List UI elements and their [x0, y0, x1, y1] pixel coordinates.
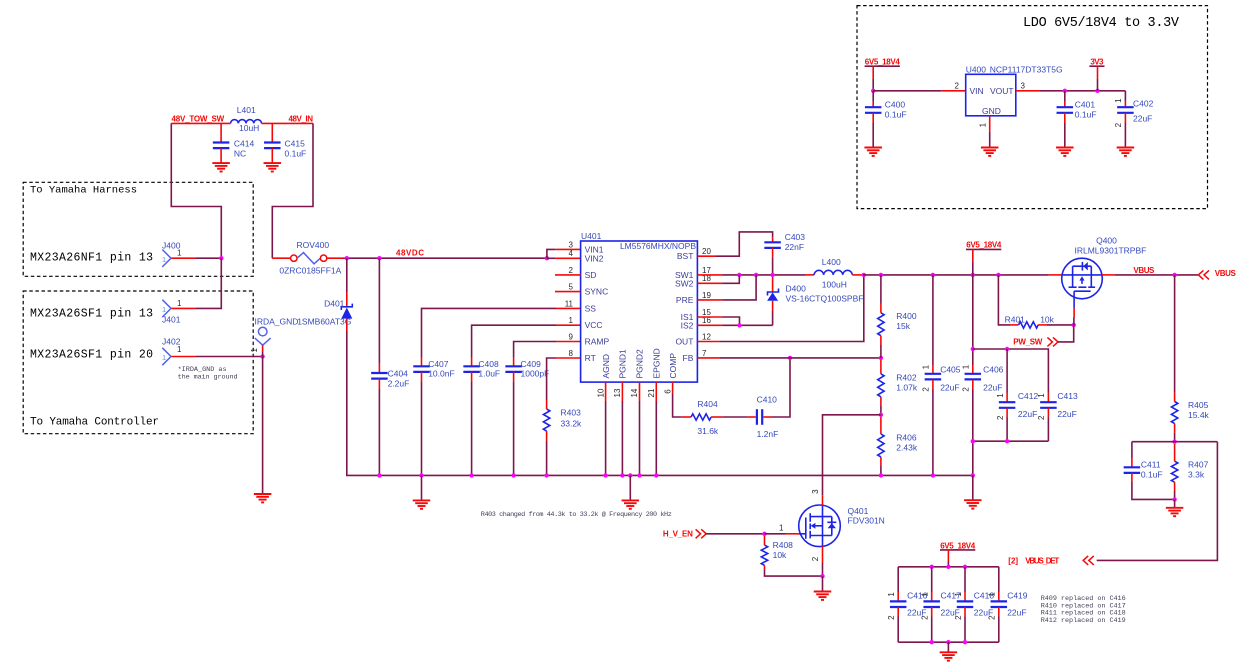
svg-text:RAMP: RAMP [585, 337, 610, 347]
varistor ROV400 [272, 257, 290, 259]
junction bus end [971, 473, 975, 477]
wire D401 to ground bus [347, 331, 973, 475]
svg-text:PGND2: PGND2 [635, 349, 645, 379]
svg-text:33.2k: 33.2k [561, 418, 583, 428]
net 48V_TOW_SW wire [171, 122, 230, 124]
svg-text:C408: C408 [478, 359, 499, 369]
svg-text:7: 7 [702, 349, 707, 358]
capacitor C417 [931, 567, 933, 592]
svg-text:1000pF: 1000pF [521, 369, 550, 379]
svg-text:H_V_EN: H_V_EN [663, 530, 693, 539]
wire C412/C413 rect top [973, 349, 1049, 393]
wire to U400 VIN [873, 90, 941, 92]
connector J400 [162, 250, 171, 267]
svg-text:2: 2 [962, 387, 971, 392]
svg-text:VOUT: VOUT [990, 86, 1014, 96]
capacitor C411 [1131, 442, 1133, 458]
capacitor C402 [1124, 91, 1126, 101]
svg-text:1: 1 [569, 316, 574, 325]
svg-text:0.1uF: 0.1uF [1075, 109, 1097, 119]
svg-text:15k: 15k [896, 321, 910, 331]
wire cap bank bottom [898, 641, 999, 643]
svg-text:C403: C403 [785, 232, 806, 242]
svg-text:3: 3 [569, 240, 574, 249]
wire ROV400 to 48VDC rail [327, 257, 343, 259]
regulator U400 NCP1117 [966, 74, 1016, 116]
wire H_V_EN to gate [705, 533, 764, 535]
svg-text:C402: C402 [1133, 98, 1154, 108]
svg-text:48V_IN: 48V_IN [289, 114, 314, 123]
wire divider mid to Q401 drain [823, 415, 881, 495]
svg-text:48V_TOW_SW: 48V_TOW_SW [172, 114, 225, 123]
svg-text:IRDA_GND: IRDA_GND [255, 316, 299, 326]
pin stub SW2 [697, 282, 722, 284]
svg-text:FDV301N: FDV301N [848, 516, 885, 526]
svg-text:C404: C404 [388, 368, 409, 378]
svg-text:2: 2 [954, 615, 963, 620]
wire C412/C413 rect bottom [973, 441, 1049, 475]
capacitor C409 [513, 357, 515, 366]
svg-text:SYNC: SYNC [585, 287, 609, 297]
junction Q401 source [820, 574, 824, 578]
svg-text:1: 1 [779, 523, 784, 532]
wire VBUS down to R405 [1174, 275, 1176, 392]
svg-text:L401: L401 [237, 105, 256, 115]
net 48V_IN wire [262, 122, 314, 124]
svg-text:6: 6 [663, 389, 672, 394]
ground below cap bank [947, 642, 949, 652]
svg-text:2: 2 [569, 266, 574, 275]
svg-text:1SMB60AT3G: 1SMB60AT3G [297, 316, 351, 326]
connector J402 [162, 348, 171, 365]
junction R406 bus [879, 473, 883, 477]
junction SW2 tap [737, 273, 741, 277]
svg-text:6V5_18V4: 6V5_18V4 [865, 57, 901, 66]
svg-text:3.3k: 3.3k [1188, 469, 1205, 479]
inductor L400 [805, 274, 814, 276]
svg-text:IRLML9301TRPBF: IRLML9301TRPBF [1075, 246, 1147, 256]
svg-text:PW_SW: PW_SW [1013, 338, 1042, 347]
svg-text:FB: FB [683, 353, 694, 363]
junction divider mid [879, 413, 883, 417]
svg-text:NC: NC [234, 148, 246, 158]
svg-text:22uF: 22uF [1007, 608, 1026, 618]
svg-text:R400: R400 [896, 311, 917, 321]
wire junction row [1132, 441, 1218, 443]
svg-text:2: 2 [811, 556, 820, 561]
capacitor C410 [748, 416, 756, 418]
svg-text:6V5_18V4: 6V5_18V4 [966, 241, 1002, 250]
capacitor C419 [998, 567, 1000, 592]
svg-text:Q400: Q400 [1096, 235, 1117, 245]
wire 6V5 rail to Q400 [863, 274, 1048, 276]
ground below C415 [264, 163, 282, 171]
svg-text:14: 14 [630, 388, 639, 397]
svg-text:12: 12 [702, 332, 711, 341]
svg-text:10.0nF: 10.0nF [428, 369, 454, 379]
svg-text:1: 1 [962, 364, 971, 369]
svg-text:1: 1 [887, 592, 896, 597]
svg-text:L400: L400 [822, 257, 841, 267]
capacitor C414 [220, 123, 222, 142]
svg-text:1: 1 [177, 249, 182, 258]
svg-text:J401: J401 [162, 315, 181, 325]
svg-text:3V3: 3V3 [1090, 57, 1104, 66]
capacitor C416 [897, 567, 899, 592]
capacitor C407 [421, 357, 423, 366]
svg-text:COMP: COMP [668, 353, 678, 379]
svg-text:2.2uF: 2.2uF [388, 378, 410, 388]
svg-text:NCP1117DT33T5G: NCP1117DT33T5G [990, 64, 1063, 74]
junction FB tap [788, 356, 792, 360]
svg-text:MX23A26SF1 pin 20: MX23A26SF1 pin 20 [30, 349, 153, 362]
junction R405 bottom [1172, 440, 1176, 444]
junction 3V3 [1095, 89, 1099, 93]
svg-text:R403: R403 [561, 407, 582, 417]
junction C412 rect top [971, 347, 975, 351]
resistor R404 [682, 416, 691, 418]
pin stub U400 GND [989, 116, 991, 132]
svg-text:VBUS: VBUS [1215, 269, 1237, 278]
junction C407 bus [419, 473, 423, 477]
wire VIN2 stub [547, 257, 556, 259]
pin stub IS1 [697, 316, 722, 318]
svg-text:VCC: VCC [585, 320, 603, 330]
capacitor C408 [471, 357, 473, 366]
junction C404 bus [377, 473, 381, 477]
svg-text:6V5_18V4: 6V5_18V4 [940, 541, 976, 550]
svg-text:1: 1 [177, 345, 182, 354]
junction FB/R402 [879, 356, 883, 360]
power symbol IRDA_GND [258, 327, 267, 336]
capacitor C415 [271, 123, 273, 142]
svg-text:To Yamaha Controller: To Yamaha Controller [30, 417, 159, 429]
wire VCC to C408 [556, 324, 581, 326]
ground below R407 [1174, 499, 1176, 507]
svg-text:C415: C415 [285, 138, 306, 148]
ground below C402 [1117, 148, 1135, 156]
svg-text:R402: R402 [896, 372, 917, 382]
pin stub OUT wire up to rail [697, 341, 720, 343]
svg-text:RT: RT [585, 353, 596, 363]
svg-text:R408: R408 [773, 540, 794, 550]
svg-text:PRE: PRE [676, 295, 694, 305]
junction C401 [1063, 89, 1067, 93]
capacitor C405 [932, 275, 934, 365]
svg-text:8: 8 [569, 349, 574, 358]
svg-text:1.2nF: 1.2nF [757, 429, 779, 439]
wire VBUS_DET vertical [1097, 442, 1218, 561]
svg-text:VBUS_DET: VBUS_DET [1025, 556, 1059, 565]
pin stub PGND2 [639, 382, 641, 401]
junction J400 node [219, 256, 223, 260]
svg-text:20: 20 [702, 247, 711, 256]
svg-text:3: 3 [1021, 82, 1026, 91]
junction Q400 gate [1072, 323, 1076, 327]
resistor R407 [1174, 444, 1176, 461]
svg-text:C401: C401 [1075, 99, 1096, 109]
svg-text:Q401: Q401 [848, 506, 869, 516]
svg-text:21: 21 [647, 388, 656, 397]
svg-text:R406: R406 [896, 432, 917, 442]
svg-text:ROV400: ROV400 [297, 240, 330, 250]
svg-text:VS-16CTQ100SPBF: VS-16CTQ100SPBF [786, 294, 864, 304]
svg-text:R407: R407 [1188, 459, 1209, 469]
svg-text:2.43k: 2.43k [896, 442, 918, 452]
wire SS to C407 [556, 307, 581, 309]
svg-text:10uH: 10uH [239, 123, 259, 133]
svg-text:SS: SS [585, 303, 597, 313]
svg-text:10k: 10k [1040, 315, 1054, 325]
svg-text:0.1uF: 0.1uF [885, 109, 907, 119]
svg-text:C405: C405 [940, 364, 961, 374]
svg-text:22nF: 22nF [785, 242, 804, 252]
svg-text:the main ground: the main ground [178, 374, 238, 382]
capacitor C406 [972, 275, 974, 365]
svg-text:1: 1 [177, 299, 182, 308]
svg-text:22uF: 22uF [983, 383, 1002, 393]
port VBUS [1198, 270, 1203, 279]
pin stub PGND1 [621, 382, 623, 401]
svg-text:R401: R401 [1005, 315, 1026, 325]
svg-text:1: 1 [922, 364, 931, 369]
svg-text:MX23A26SF1 pin 13: MX23A26SF1 pin 13 [30, 308, 153, 321]
svg-text:LDO 6V5/18V4 to 3.3V: LDO 6V5/18V4 to 3.3V [1023, 16, 1180, 31]
pin stub AGND [605, 382, 607, 401]
svg-text:1.0uF: 1.0uF [478, 369, 500, 379]
svg-text:2: 2 [1114, 122, 1123, 127]
svg-text:1: 1 [250, 348, 259, 353]
svg-text:1: 1 [1037, 393, 1046, 398]
wire RT to R403 [556, 357, 581, 359]
resistor R400 [880, 275, 882, 304]
svg-text:2: 2 [996, 415, 1005, 420]
junction R403 bus [544, 473, 548, 477]
wire J401 pin stub [172, 307, 197, 309]
svg-text:D401: D401 [324, 298, 345, 308]
wire cap bank top [898, 566, 999, 568]
diode D400 schottky [772, 277, 774, 292]
svg-text:C419: C419 [1007, 591, 1028, 601]
svg-text:U400: U400 [966, 64, 987, 74]
svg-text:MX23A26NF1 pin 13: MX23A26NF1 pin 13 [30, 252, 153, 265]
resistor R408 [764, 536, 766, 545]
svg-text:15.4k: 15.4k [1188, 410, 1210, 420]
pin stub FB wire [697, 357, 720, 359]
junction VIN jog [545, 256, 549, 260]
transistor Q400 IRLML9301 [1062, 258, 1103, 299]
junction R400 tap [879, 273, 883, 277]
svg-text:To Yamaha Harness: To Yamaha Harness [30, 185, 137, 197]
junction C408 bus [469, 473, 473, 477]
svg-text:EPGND: EPGND [652, 348, 662, 378]
svg-text:19: 19 [702, 291, 711, 300]
svg-text:13: 13 [613, 388, 622, 397]
capacitor C400 [872, 91, 874, 101]
wire Q400 drain to VBUS [1102, 274, 1115, 276]
svg-text:LM5576MHX/NOPB: LM5576MHX/NOPB [620, 241, 696, 251]
resistor R406 [880, 417, 882, 434]
svg-text:C406: C406 [983, 364, 1004, 374]
svg-text:1.07k: 1.07k [896, 382, 918, 392]
svg-text:R404: R404 [697, 399, 718, 409]
svg-text:2: 2 [988, 615, 997, 620]
pin stub IS2 [697, 324, 722, 326]
svg-text:C410: C410 [757, 395, 778, 405]
svg-text:2: 2 [1037, 415, 1046, 420]
svg-text:22uF: 22uF [1133, 113, 1152, 123]
svg-text:C407: C407 [428, 359, 449, 369]
ground at bus end [972, 475, 974, 500]
ground below C400 [864, 148, 882, 156]
pin stub BST wire to C403 [697, 255, 716, 257]
connector J401 [162, 300, 171, 317]
pin stub PRE [697, 299, 722, 301]
resistor R401 [998, 275, 1010, 325]
svg-text:1: 1 [1114, 98, 1123, 103]
ground main (IRDA_GND) [254, 494, 272, 502]
ground below Q401 [822, 576, 824, 591]
junction 6V5 label tap [971, 273, 975, 277]
wire 48V_TOW_SW down to J400 junction [171, 123, 221, 258]
svg-text:1: 1 [162, 353, 166, 362]
svg-text:11: 11 [565, 299, 574, 308]
svg-text:100uH: 100uH [822, 279, 847, 289]
junction R407 bottom [1172, 497, 1176, 501]
capacitor C418 [964, 567, 966, 592]
wire 48V_IN down to ROV400 [272, 123, 313, 258]
pin stub U400 VOUT [1016, 90, 1040, 92]
pin stub EPGND [655, 382, 657, 401]
svg-text:R403 changed from 44.3k to 33.: R403 changed from 44.3k to 33.2k @ Frequ… [481, 511, 672, 519]
junction VBUS [1172, 273, 1176, 277]
svg-text:GND: GND [982, 106, 1001, 116]
wire J400 pin stub [172, 257, 197, 259]
svg-text:C414: C414 [234, 138, 255, 148]
ground below U400 [981, 148, 999, 156]
svg-text:0.1uF: 0.1uF [1141, 469, 1163, 479]
capacitor C401 [1064, 91, 1066, 101]
junction C404 tap [377, 256, 381, 260]
svg-text:VBUS: VBUS [1133, 266, 1155, 275]
svg-text:1: 1 [921, 592, 930, 597]
wire IRDA node to main ground [262, 357, 264, 495]
svg-text:C412: C412 [1018, 391, 1039, 401]
junction IRDA node [260, 354, 264, 358]
dashed box LDO section [857, 6, 1208, 209]
svg-text:[2]: [2] [1008, 556, 1018, 565]
dashed box To Yamaha Controller [23, 291, 253, 434]
transistor Q401 FDV301N [799, 505, 841, 547]
pin stub SD free [555, 274, 581, 276]
svg-text:3: 3 [811, 489, 820, 494]
resistor R403 [546, 400, 548, 409]
svg-text:1: 1 [162, 255, 166, 264]
junction D401 tap [345, 256, 349, 260]
capacitor C413 [1047, 393, 1049, 403]
svg-text:C411: C411 [1141, 459, 1161, 469]
svg-text:1: 1 [162, 305, 166, 314]
resistor R402 [880, 360, 882, 374]
svg-text:0.1uF: 0.1uF [285, 148, 307, 158]
svg-text:BST: BST [677, 251, 694, 261]
wire RAMP to C409 [556, 341, 581, 343]
pin stub Q401 source [822, 546, 824, 563]
junction C400 [871, 89, 875, 93]
svg-text:VIN: VIN [970, 86, 984, 96]
ground below C414 [212, 163, 230, 171]
svg-text:0ZRC0185FF1A: 0ZRC0185FF1A [279, 265, 341, 275]
svg-text:9: 9 [569, 332, 574, 341]
svg-text:PGND1: PGND1 [618, 349, 628, 379]
wire J400 node down to J401 [196, 258, 221, 308]
svg-text:22uF: 22uF [1018, 409, 1037, 419]
svg-text:U401: U401 [581, 231, 602, 241]
op-amp/regulator IC U401 LM5576 [581, 241, 698, 382]
svg-text:2: 2 [922, 387, 931, 392]
port VBUS_DET [1083, 556, 1088, 565]
svg-text:SD: SD [585, 270, 597, 280]
svg-text:C409: C409 [521, 359, 542, 369]
svg-text:1: 1 [988, 592, 997, 597]
capacitor C404 [378, 258, 380, 363]
svg-text:22uF: 22uF [940, 383, 959, 393]
junction PRE tap [754, 273, 758, 277]
ground below bus at C407 [421, 475, 423, 500]
svg-text:D400: D400 [786, 284, 807, 294]
svg-text:R405: R405 [1188, 400, 1209, 410]
resistor R405 [1174, 392, 1176, 402]
svg-text:OUT: OUT [675, 337, 693, 347]
junction C405 tap [931, 273, 935, 277]
junction R401 tap [996, 273, 1000, 277]
svg-text:1: 1 [996, 393, 1005, 398]
inductor L401 [231, 120, 262, 124]
wire C410 up to FB [772, 358, 791, 417]
svg-text:VIN2: VIN2 [585, 253, 604, 263]
junction R408 tap [762, 532, 766, 536]
svg-text:2: 2 [955, 82, 960, 91]
svg-text:1: 1 [979, 122, 988, 127]
diode D401 TVS [346, 258, 348, 292]
junction C409 bus [511, 473, 515, 477]
capacitor C412 [1006, 349, 1008, 393]
svg-text:4: 4 [569, 249, 574, 258]
svg-text:10: 10 [596, 388, 605, 397]
wire J402 pin stub to IRDA node [172, 356, 197, 358]
svg-text:*IRDA_GND as: *IRDA_GND as [178, 366, 227, 374]
svg-text:22uF: 22uF [1057, 409, 1076, 419]
dashed box To Yamaha Harness [23, 182, 253, 276]
svg-text:IS2: IS2 [681, 320, 694, 330]
pin stub SW1 wire [697, 274, 722, 276]
svg-text:R412 replaced on C419: R412 replaced on C419 [1041, 617, 1126, 625]
svg-text:48VDC: 48VDC [396, 249, 424, 258]
svg-text:5: 5 [569, 283, 574, 292]
junction OUT tap [862, 273, 866, 277]
svg-text:10k: 10k [773, 550, 787, 560]
svg-text:31.6k: 31.6k [697, 426, 719, 436]
svg-text:2: 2 [887, 615, 896, 620]
svg-text:1: 1 [954, 592, 963, 597]
pin stub SYNC free [555, 291, 581, 293]
capacitor C403 [772, 237, 774, 242]
svg-text:2: 2 [921, 615, 930, 620]
ground below bus center [628, 473, 632, 477]
svg-text:AGND: AGND [601, 354, 611, 379]
ground below C401 [1056, 148, 1074, 156]
svg-text:C413: C413 [1057, 391, 1078, 401]
